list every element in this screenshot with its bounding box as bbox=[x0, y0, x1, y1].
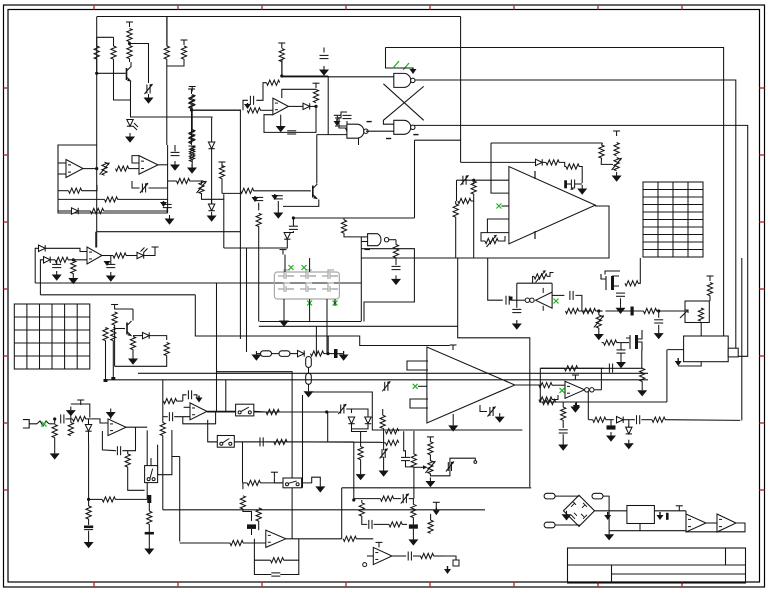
wire U13 out bbox=[515, 384, 541, 386]
power P4 bbox=[281, 43, 283, 48]
wire C43 bot bbox=[166, 208, 168, 213]
wire C23-R62 bbox=[66, 418, 73, 420]
wire C19 top bbox=[620, 343, 622, 350]
wire R62 r bbox=[86, 418, 90, 420]
capacitor C15 bbox=[512, 308, 521, 310]
ground G37 bbox=[562, 441, 564, 445]
wire x282 up bbox=[281, 60, 283, 77]
node U6 out bbox=[95, 167, 98, 170]
ground G16 bbox=[598, 331, 600, 335]
resistor R24 bbox=[219, 166, 224, 179]
wire R39 hook bbox=[547, 273, 554, 277]
wire R2 to emitter bbox=[114, 75, 131, 100]
C14 black dot bbox=[510, 297, 513, 301]
wire C18 bot bbox=[658, 325, 660, 330]
diode D17 (LED) bbox=[137, 252, 144, 258]
wire loop leg bbox=[223, 199, 225, 248]
wire x316 drop bbox=[315, 326, 317, 356]
wire C7 top bbox=[174, 145, 176, 152]
ground G36 bbox=[628, 440, 630, 444]
wire bus y392 bbox=[309, 392, 523, 430]
wire node y37 bbox=[97, 36, 114, 38]
op-amp U10 bbox=[509, 167, 595, 244]
mosfet Q3 bbox=[601, 274, 619, 290]
wire R18 lead2 bbox=[82, 185, 98, 191]
wire BR out bbox=[595, 510, 627, 512]
wire U2 out bbox=[288, 105, 303, 107]
resistor R6 bbox=[189, 96, 194, 109]
mark M8 bbox=[554, 299, 559, 304]
wire R22 right bbox=[190, 181, 202, 184]
resistor R64 bbox=[68, 423, 73, 436]
resistor R28 bbox=[393, 245, 398, 258]
U14 bubble bbox=[585, 388, 589, 392]
wire pillrow bbox=[256, 353, 261, 355]
cap arrow bbox=[570, 187, 574, 191]
nand gate U8 bbox=[368, 234, 381, 246]
resistor R25 bbox=[241, 188, 254, 193]
wire D10 link bbox=[88, 419, 90, 425]
wire x328 low bbox=[327, 412, 329, 442]
wire R89 r bbox=[606, 419, 614, 421]
wire y311 right bbox=[605, 310, 643, 312]
node K bbox=[87, 498, 90, 501]
wire R28 down bbox=[395, 258, 397, 266]
wire x341 down bbox=[341, 488, 343, 539]
wire R22 left bbox=[168, 180, 177, 182]
ground G17 bbox=[620, 304, 622, 308]
resistor R91 bbox=[561, 407, 566, 420]
wire pickup lead bbox=[335, 121, 347, 126]
wire R3 tap to C1 bbox=[130, 44, 149, 84]
nand gate U3 bbox=[394, 73, 411, 87]
wire R34 right bbox=[498, 236, 505, 241]
op-amp U18 bbox=[266, 530, 286, 547]
wire y456 ext bbox=[179, 457, 181, 542]
wire R24 right bbox=[222, 192, 240, 194]
wire nand in1 lead bbox=[360, 237, 362, 258]
resistor R86 bbox=[55, 257, 68, 262]
mark M11 bbox=[42, 422, 47, 427]
wire box in left bbox=[667, 349, 683, 351]
op-amp U17 bbox=[190, 403, 207, 420]
capacitor C29 bbox=[340, 405, 342, 414]
wire U6 out bbox=[83, 168, 97, 170]
cap C26 bar bbox=[145, 532, 154, 535]
wire U2 gnd stem bbox=[280, 115, 282, 123]
resistor R19 bbox=[105, 197, 118, 202]
wire R77 r bbox=[260, 482, 283, 484]
wire R5 to R4 bbox=[167, 59, 184, 66]
resistor R89 bbox=[593, 417, 606, 422]
resistor R74 bbox=[380, 415, 385, 428]
trim pot R42 bbox=[596, 315, 601, 328]
wire C34 l bbox=[393, 498, 400, 500]
wire bus y231 bbox=[97, 231, 241, 233]
wire bus y442 bbox=[208, 441, 354, 443]
wire R24 down bbox=[221, 179, 223, 194]
diode D9 bbox=[143, 332, 150, 338]
polarity arrow A11 bbox=[659, 512, 661, 515]
wire U17 fb box bbox=[183, 411, 216, 424]
wire R23 loop bbox=[202, 193, 224, 199]
resistor R32 bbox=[566, 164, 579, 169]
polarity arrow A10 bbox=[607, 512, 609, 515]
resistor R1 bbox=[94, 46, 99, 59]
wire +in stub bbox=[184, 406, 191, 408]
ground G14 bbox=[616, 172, 618, 176]
trim pot R34 bbox=[485, 238, 498, 243]
resistor R66 bbox=[86, 506, 91, 519]
wire -in rail bbox=[491, 142, 603, 144]
wire fet out1 bbox=[283, 299, 285, 317]
wire y380 bus bbox=[106, 379, 649, 381]
capacitor C43 (box corner) bbox=[163, 203, 172, 205]
resistor R55 bbox=[539, 397, 552, 402]
resistor R93 bbox=[428, 442, 433, 455]
resistor R50 bbox=[604, 340, 617, 345]
op-amp U14 bbox=[565, 381, 585, 398]
wire R61 down bbox=[115, 356, 167, 367]
capacitor C30 bbox=[381, 449, 383, 458]
wire R60 down bbox=[112, 341, 114, 380]
wire C45 bot bbox=[406, 461, 414, 467]
op-amp U2 bbox=[273, 98, 289, 115]
op-amp U22 bbox=[87, 247, 102, 264]
wire diode box bbox=[352, 429, 368, 432]
wire D11 top bbox=[352, 409, 369, 417]
wire Q2 collector bbox=[316, 135, 318, 184]
wire R31 corner bbox=[559, 162, 566, 166]
ground G1 bbox=[148, 94, 150, 98]
wire y110 to diode bbox=[130, 117, 212, 118]
wire x171 down bbox=[171, 430, 173, 457]
wire S4 in bbox=[274, 477, 283, 483]
wire x88 down bbox=[88, 443, 90, 499]
capacitor C45 bbox=[401, 456, 410, 458]
wire U8 out bbox=[388, 239, 396, 241]
wire R74 t bbox=[382, 409, 384, 415]
trim pot R39 (fb) bbox=[534, 274, 547, 279]
wire U13 in2 bbox=[410, 399, 428, 408]
ground G5 bbox=[174, 161, 176, 165]
ground G26 bbox=[54, 450, 56, 454]
wire C30 t bbox=[383, 428, 385, 450]
wire C25 b bbox=[88, 531, 90, 539]
ground G18 bbox=[658, 330, 660, 334]
op-amp U13 bbox=[427, 347, 515, 423]
node L bbox=[325, 410, 328, 413]
wire bus y541 bbox=[180, 542, 230, 544]
wire R1 bottom bbox=[96, 59, 98, 73]
wire C6 lead bbox=[132, 181, 140, 188]
wire C24 r bbox=[122, 427, 135, 451]
capacitor C24 bbox=[116, 446, 118, 455]
wire U19 out bbox=[392, 555, 406, 557]
wire U17 out bbox=[207, 410, 236, 412]
wire C28 out bbox=[174, 416, 190, 418]
wire T5 lead bbox=[336, 351, 344, 354]
diode D16 bbox=[44, 257, 51, 263]
wire R75 b bbox=[360, 460, 362, 471]
wire R55 r bbox=[552, 395, 558, 400]
tick mark t2 bbox=[386, 138, 391, 140]
wire fet out2 bbox=[309, 299, 311, 321]
wire x353 down bbox=[353, 442, 355, 500]
wire R90 r bbox=[665, 419, 740, 422]
ground G27 bbox=[110, 409, 112, 413]
capacitor C10 bbox=[289, 225, 298, 227]
resistor R81 bbox=[271, 558, 284, 563]
wire X1 to U12 bbox=[700, 323, 702, 337]
tick mark t3 bbox=[413, 134, 418, 136]
resistor R54 bbox=[539, 383, 552, 388]
wire VR1 out bbox=[654, 510, 686, 512]
black tick C12 bbox=[564, 180, 567, 188]
resistor R65 bbox=[125, 454, 130, 467]
wire -in col bbox=[162, 380, 164, 423]
wire R34v bot bbox=[455, 217, 457, 258]
node E bbox=[292, 216, 295, 219]
wire R87 r bbox=[402, 523, 407, 525]
resistor R61 bbox=[164, 343, 169, 356]
trim pot R23 bbox=[199, 181, 204, 194]
wire y373 bus bbox=[138, 372, 648, 374]
capacitor C42 bbox=[106, 263, 115, 265]
polarity arrow A4 bbox=[254, 196, 256, 197]
wire U5 in bot bbox=[317, 134, 347, 136]
nand gate U5 bbox=[347, 124, 364, 138]
wire y211 c bbox=[104, 210, 168, 212]
power P10 bbox=[282, 250, 284, 255]
wire C4 node bbox=[243, 100, 248, 110]
resistor R7 bbox=[189, 131, 194, 144]
power P22 bbox=[378, 542, 380, 547]
wire D18 down bbox=[224, 240, 287, 249]
resistor R95 bbox=[411, 454, 416, 467]
wire bus y487 bbox=[342, 487, 532, 489]
wire y294 up-leg bbox=[40, 260, 43, 295]
wire C33 loop2 bbox=[280, 560, 299, 574]
wire x588 vert bbox=[587, 391, 589, 420]
wire C6 lead2 bbox=[149, 187, 168, 189]
node C bbox=[280, 74, 283, 77]
polarity arrow A13 bbox=[106, 260, 108, 262]
wire R63 down bbox=[54, 438, 56, 450]
wire C37 r bbox=[413, 555, 421, 557]
wire R42 top bbox=[598, 311, 600, 315]
resistor R72 bbox=[160, 423, 165, 436]
wire R1 branch bbox=[96, 37, 98, 46]
capacitor C36 bbox=[368, 520, 370, 529]
capacitor C1 (variable) bbox=[146, 85, 148, 94]
black tick T6 bbox=[631, 307, 634, 316]
wire Q3 top bbox=[605, 271, 620, 275]
resistor R3 bbox=[127, 29, 132, 42]
wire R66 t bbox=[88, 499, 90, 506]
wire S1 out bbox=[158, 457, 180, 475]
wire block right bbox=[167, 145, 169, 213]
title block table bbox=[568, 548, 746, 583]
wire R97 left leg bbox=[384, 442, 386, 444]
wire y401 right bbox=[540, 401, 667, 403]
wire R36 top bbox=[602, 143, 603, 145]
wire ps bottom bbox=[609, 530, 686, 532]
wire U7 out bbox=[158, 164, 168, 166]
resistor R57 bbox=[112, 312, 117, 325]
resistor R73 bbox=[266, 409, 279, 414]
capacitor C11 bbox=[392, 265, 401, 267]
wire C13 col bbox=[456, 180, 458, 201]
wire D17 out bbox=[144, 252, 155, 256]
wire U10 pot lead bbox=[481, 233, 487, 241]
wire U14 up bbox=[600, 368, 602, 390]
wire D11 bot bbox=[352, 424, 369, 429]
wire C26 b bbox=[148, 535, 150, 546]
power P9 bbox=[221, 162, 223, 167]
wire x328 mid bbox=[327, 336, 329, 354]
wire x167 long bbox=[166, 59, 168, 145]
wire R64 t bbox=[70, 414, 72, 423]
wire R86 t bbox=[430, 514, 432, 520]
wire U12 bot bbox=[678, 362, 701, 366]
wire left block top bbox=[192, 109, 241, 111]
U10 -in tick bbox=[534, 171, 536, 179]
diode D18 bbox=[284, 233, 290, 240]
mark M7 bbox=[496, 204, 501, 209]
resistor R5 bbox=[181, 46, 186, 59]
wire vertical x460 bbox=[460, 17, 462, 163]
wire x147 vert bbox=[146, 430, 148, 499]
capacitor C38 bbox=[636, 415, 638, 424]
wire y110 right bbox=[192, 109, 242, 111]
wire x413 col a bbox=[413, 431, 415, 454]
resistor R3b bbox=[127, 46, 132, 59]
wire x473 down bbox=[473, 182, 475, 184]
power P27 bbox=[429, 437, 431, 442]
wire C35 b bbox=[412, 529, 414, 536]
wire fb rail drop bbox=[551, 283, 553, 292]
wire R76 r bbox=[287, 441, 384, 443]
connector grid TB1 (right) bbox=[643, 182, 703, 257]
wire U14 out bbox=[594, 389, 601, 391]
connector J1 bbox=[261, 351, 272, 357]
resistor R82 bbox=[230, 540, 243, 545]
cap C32 bar bbox=[247, 524, 256, 529]
wire R53 r bbox=[578, 367, 605, 369]
wire J6 to BR bbox=[555, 525, 579, 527]
wire R2 bottom bbox=[113, 59, 115, 75]
wire U8 out down bbox=[395, 240, 397, 245]
connector J2 bbox=[279, 351, 290, 357]
diode D13 bbox=[617, 417, 624, 423]
resistor R13 bbox=[190, 95, 195, 108]
power P15 bbox=[574, 375, 576, 380]
wire y218 seg bbox=[293, 217, 414, 219]
nand gate U4 bbox=[394, 120, 411, 134]
switch S4 bbox=[283, 478, 302, 488]
power P13 bbox=[709, 276, 711, 281]
diode D6 bbox=[208, 204, 214, 211]
wire R58 down bbox=[132, 350, 134, 356]
power P17 bbox=[80, 400, 82, 405]
wire C10 stem bbox=[292, 218, 294, 226]
wire fb box bbox=[539, 368, 541, 402]
wire D13 r bbox=[624, 419, 635, 421]
node F bbox=[326, 352, 329, 355]
resistor R12 bbox=[313, 90, 318, 103]
wire jack out bbox=[49, 423, 55, 425]
wire C34 r bbox=[409, 498, 414, 500]
resistor R43 bbox=[625, 281, 638, 286]
wire C41 top bbox=[56, 260, 58, 265]
resistor R60 bbox=[111, 328, 116, 341]
wire bus y326 bbox=[259, 325, 458, 327]
wire R10 to C4 bbox=[256, 83, 266, 101]
resistor R11 bbox=[247, 108, 260, 113]
wire C29 r bbox=[346, 409, 351, 413]
resistor R58 bbox=[130, 337, 135, 350]
wire R3b to base bbox=[129, 59, 131, 63]
resistor R20 bbox=[91, 208, 104, 213]
wire big opamp feedback bus bbox=[361, 206, 609, 258]
arrow A6 bbox=[677, 358, 679, 361]
cap C25 bar bbox=[84, 526, 93, 529]
pot R94 bbox=[428, 461, 433, 474]
resistor R49 bbox=[707, 283, 712, 296]
wire C38 r bbox=[641, 419, 652, 421]
resistor R86 bbox=[428, 520, 433, 533]
capacitor C20 bbox=[608, 364, 610, 373]
capacitor C27 bbox=[187, 390, 189, 399]
ground G39 bbox=[608, 531, 610, 535]
ground G43 bbox=[110, 272, 112, 276]
capacitor C28 bbox=[168, 412, 170, 421]
wire x413 col b bbox=[413, 467, 415, 499]
capacitor C44 bbox=[447, 462, 449, 471]
ground G14b bbox=[581, 185, 583, 189]
wire C45 top bbox=[404, 443, 406, 458]
wire C27 loop b bbox=[194, 395, 197, 399]
resistor R92 bbox=[543, 399, 556, 404]
tick mark t1 bbox=[367, 121, 372, 123]
wire left col x212 bbox=[211, 118, 213, 204]
resistor R85 bbox=[411, 504, 416, 517]
wire pill1-2 bbox=[272, 353, 280, 355]
resistor R96 bbox=[386, 429, 399, 434]
resistor R75 bbox=[358, 447, 363, 460]
capacitor C41 bbox=[52, 263, 61, 265]
wire R71 l bbox=[162, 400, 165, 402]
wire block v2 bbox=[57, 145, 59, 213]
U19 circle bbox=[363, 563, 367, 567]
wire top bus bbox=[97, 16, 461, 18]
transistor Q1 bbox=[127, 67, 132, 82]
wire R13 down bbox=[191, 108, 193, 131]
wire Q4 gnd bbox=[666, 350, 668, 402]
resistor R22 bbox=[177, 178, 190, 183]
ground G6 bbox=[191, 164, 193, 168]
wire x242 drop bbox=[242, 442, 244, 483]
ground G32 bbox=[360, 471, 362, 475]
wire nand1 jog bbox=[386, 48, 414, 69]
resistor R37 bbox=[614, 143, 619, 156]
wire cross 2 bbox=[383, 86, 423, 124]
wire nand in2 bbox=[361, 241, 368, 243]
wire in top bbox=[71, 404, 90, 418]
wire R27 to nand bbox=[344, 233, 361, 237]
wire U6 in bot bbox=[58, 173, 66, 175]
